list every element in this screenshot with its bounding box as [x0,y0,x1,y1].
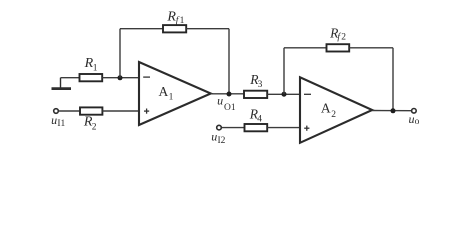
terminal uI1 [54,109,59,114]
label uO [409,112,420,127]
wire [267,93,300,95]
resistor R1 [80,74,103,81]
resistor Rf2 [327,44,350,51]
node uO1 [227,92,232,97]
op-amp A1 [139,62,211,125]
terminal uO [412,109,417,114]
svg-text:O1: O1 [224,103,236,113]
svg-text:u: u [51,113,57,127]
wire [349,47,393,49]
wire [61,77,80,79]
label A2 [321,100,336,120]
label Rf1 [166,10,184,26]
svg-text:A: A [159,84,169,99]
node at inverting input of A1 [118,75,123,80]
label uO1 [217,93,236,113]
node uO [391,108,396,113]
wire [283,48,285,94]
svg-text:2: 2 [92,122,97,132]
wire [186,28,229,30]
terminal uI2 [217,125,222,130]
wire [102,77,139,79]
wire [119,29,121,78]
label R1 [84,56,98,73]
resistor R2 [80,107,102,114]
wire [392,48,394,111]
resistor R3 [244,91,267,98]
svg-text:1: 1 [180,16,185,26]
svg-text:I1: I1 [57,119,65,129]
svg-text:u: u [409,112,415,126]
svg-text:2: 2 [331,110,336,120]
label R4 [249,106,262,124]
wire [228,29,230,94]
node at inverting input of A2 [282,92,287,97]
wire [267,127,300,129]
wire [284,47,327,49]
label uI1 [51,113,65,129]
svg-text:u: u [217,93,223,107]
label R3 [249,72,262,90]
svg-text:I2: I2 [218,136,226,146]
svg-text:2: 2 [341,33,346,43]
resistor Rf1 [163,25,186,32]
svg-text:3: 3 [258,80,263,90]
svg-text:A: A [321,100,331,115]
label A1 [159,84,174,103]
wire [102,110,139,112]
wire [59,110,80,112]
wire [120,28,163,30]
svg-text:o: o [415,117,420,127]
resistor R4 [245,124,268,131]
wire [372,110,411,112]
svg-text:1: 1 [169,93,174,103]
svg-text:u: u [211,130,217,144]
wire [211,93,244,95]
label Rf2 [329,25,346,42]
ground [52,78,72,89]
wire [222,127,245,129]
label uI2 [211,130,225,146]
svg-text:1: 1 [93,63,98,73]
op-amp A2 [300,77,372,143]
svg-text:4: 4 [257,115,262,125]
label R2 [83,114,97,132]
